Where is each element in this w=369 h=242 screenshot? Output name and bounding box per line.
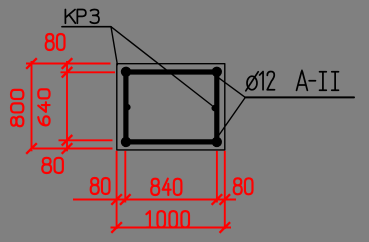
tick 840 right inner <box>212 194 223 205</box>
dim text 80 bottom chain right <box>234 178 253 194</box>
tick 840 right outer <box>220 194 231 205</box>
rebar dot top-left <box>121 67 131 77</box>
tick 800 top <box>26 58 37 69</box>
label KP3 underline <box>62 26 111 28</box>
concrete section outline <box>117 64 225 150</box>
extension line bottom of section <box>33 148 113 150</box>
label o12 A-II underline <box>245 96 354 98</box>
stirrup lap bump right <box>212 105 219 112</box>
extension line stirrup top <box>61 71 116 73</box>
tick 840 left inner <box>120 194 131 205</box>
extension line below right outer corner <box>224 151 226 229</box>
dim text 1000 <box>146 211 189 227</box>
rebar dot bottom-right <box>212 137 222 147</box>
dim line 800 (vertical left outer) <box>31 61 33 151</box>
extension line below left outer corner <box>116 151 118 229</box>
dim line 80/840/80 (horizontal) <box>73 199 236 201</box>
leader to top-right rebar <box>219 78 245 97</box>
tick 80 top a <box>62 58 73 69</box>
extension line top of section <box>26 63 111 65</box>
extension line below left stirrup leg <box>124 151 126 203</box>
extension line stirrup bottom <box>59 139 113 141</box>
tick 1000 left <box>111 222 122 233</box>
leader from KP3 to top-left corner <box>111 27 117 65</box>
tick 840 left outer <box>111 194 122 205</box>
stirrup KP3 (closed tie) <box>126 72 217 142</box>
diameter symbol <box>247 76 257 90</box>
dim line 80/640/80 (vertical left inner) <box>66 61 68 151</box>
dim text 800 (rotated) <box>11 90 23 126</box>
label KP3 <box>65 10 99 24</box>
dim text 640 (rotated) <box>38 89 49 125</box>
tick 1000 right <box>220 222 231 233</box>
rebar dot top-right <box>212 67 222 77</box>
leader from KP3 to stirrup mid-right <box>111 27 212 106</box>
tick 80 bottom b <box>62 143 73 154</box>
dim text 80 bottom-left <box>42 158 63 173</box>
tick 800 bottom <box>26 143 37 154</box>
dim line 1000 (horizontal) <box>111 227 232 229</box>
leader to bottom-right rebar <box>218 97 245 136</box>
dim text 80 top-left <box>46 34 65 50</box>
dim text 80 bottom chain left <box>91 178 110 194</box>
extension line below right stirrup leg <box>216 151 218 203</box>
rebar dot bottom-left <box>121 137 131 147</box>
tick 80 top b <box>62 67 73 78</box>
dim text 840 <box>151 179 181 195</box>
label o12 A-II <box>246 70 339 90</box>
tick 640 bottom <box>62 135 73 146</box>
stirrup lap bump left <box>124 104 131 111</box>
